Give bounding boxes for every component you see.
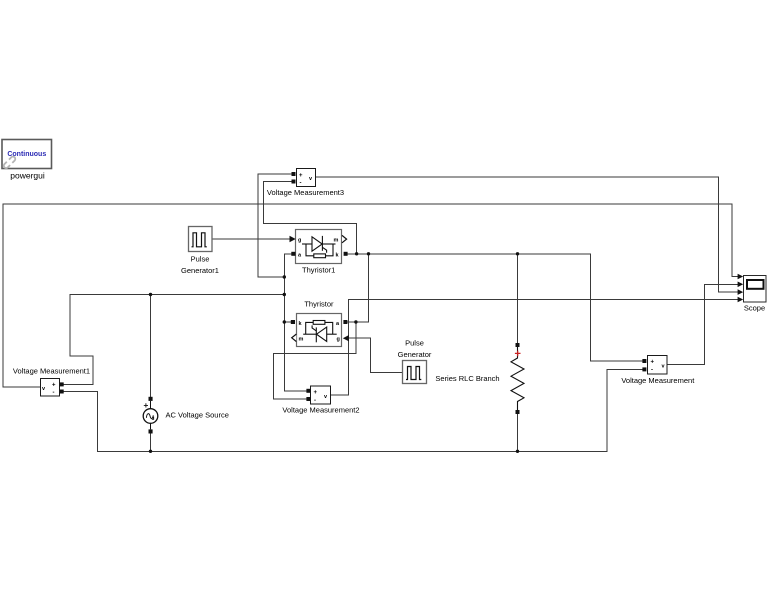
svg-text:Voltage Measurement1: Voltage Measurement1 [13, 367, 90, 376]
svg-text:Generator: Generator [398, 350, 432, 359]
svg-text:-: - [314, 398, 316, 404]
svg-text:Voltage Measurement: Voltage Measurement [621, 376, 695, 385]
svg-text:-: - [53, 390, 55, 396]
svg-text:Generator1: Generator1 [181, 266, 219, 275]
svg-text:+: + [52, 383, 56, 389]
svg-text:-: - [300, 181, 302, 187]
svg-text:g: g [298, 238, 301, 244]
svg-text:+: + [299, 173, 303, 179]
svg-text:Thyristor1: Thyristor1 [302, 266, 335, 275]
svg-text:m: m [334, 238, 339, 244]
svg-text:AC Voltage Source: AC Voltage Source [166, 411, 229, 420]
svg-text:Pulse: Pulse [405, 339, 424, 348]
svg-text:Pulse: Pulse [191, 255, 210, 264]
svg-text:g: g [337, 337, 340, 343]
svg-text:Voltage Measurement2: Voltage Measurement2 [282, 406, 359, 415]
svg-text:powergui: powergui [10, 171, 45, 181]
svg-text:Voltage Measurement3: Voltage Measurement3 [267, 188, 344, 197]
svg-text:+: + [314, 390, 318, 396]
svg-text:Scope: Scope [744, 304, 765, 313]
svg-text:+: + [651, 360, 655, 366]
svg-text:Thyristor: Thyristor [304, 300, 334, 309]
svg-text:-: - [651, 368, 653, 374]
svg-text:Series RLC Branch: Series RLC Branch [435, 374, 499, 383]
svg-text:m: m [299, 337, 304, 343]
